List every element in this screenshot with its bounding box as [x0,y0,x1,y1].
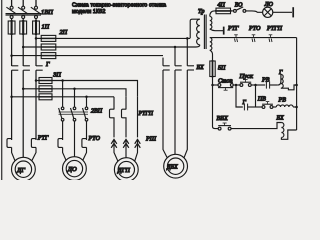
wire DBH right down into motor [184,70,187,158]
coil G [278,74,297,89]
svg-text:ВО: ВО [235,2,243,8]
button PV [262,102,273,109]
wire BH mid down [174,47,176,66]
wire tap L1 to 2P [12,55,42,57]
thermal relay RTGP heater 1 [110,109,115,137]
contact G aux [244,104,255,111]
switch 1VP pole 3 blade [31,7,41,14]
right rail [296,38,298,130]
contactor BH main contact 1 [163,66,170,70]
node tap L3 to fuse block 3P [35,79,38,82]
wire tap L1 to 3P [12,96,39,98]
transformer secondary lower winding [210,38,212,51]
node tap L2 to fuse block 3P [22,88,25,91]
motor DG [12,157,36,181]
fuse 5P [210,60,215,78]
transformer secondary lower top lead to thermal contacts [210,37,213,39]
plug arrows RSh wire 2 [123,139,129,157]
node DO branch on line A [61,79,64,82]
wire DG right into motor [32,147,36,160]
wire DGP phase 3 down [137,97,139,138]
svg-text:1ВП: 1ВП [41,9,53,16]
wire VO to lamp [246,11,263,12]
wire DO branch 2 down to switch [74,89,76,107]
svg-text:ДГ: ДГ [16,167,25,174]
thermal relay RTG heater left [7,139,12,148]
svg-text:4П: 4П [218,1,226,8]
wire line A to transformer riser [56,37,190,39]
svg-text:РТГ: РТГ [227,26,239,32]
switch 1VP mechanical link [6,14,42,15]
wire DO left into motor [63,147,66,160]
svg-text:РТО: РТО [248,26,261,32]
svg-text:Г: Г [278,70,283,76]
switch VO [234,7,246,12]
transformer primary bottom connection [194,45,200,47]
svg-text:ДБХ: ДБХ [166,165,178,171]
svg-text:БХ: БХ [196,65,205,71]
contactor G main contact pole 2 [23,66,30,70]
wire L1 below contact [11,70,13,140]
switch 1VP pole 1 lower circle [10,16,13,19]
phase L1 top stub [11,0,13,6]
wire DO pole1 below switch [62,121,64,140]
wire DO pole3 below switch [86,121,88,140]
wire to stop button [213,84,219,86]
button VBH [218,123,231,130]
switch 1VP pole 3 upper circle [35,6,38,9]
svg-text:Г: Г [242,100,247,106]
wire 3P line A to DGP corner [52,81,138,97]
wire DGP phase 2 down [125,97,127,110]
svg-text:БХ: БХ [276,115,285,121]
svg-text:РТГП: РТГП [266,26,283,32]
svg-text:РТО: РТО [88,136,101,142]
plug arrows RSh wire 3 [135,139,141,161]
terminal bar lamp return [223,27,225,35]
motor DGP [114,158,138,182]
button Pusk [240,79,251,86]
thermal contact RTO [252,35,256,42]
fuse 1P pole 2 [20,20,27,35]
fuse 4P [215,8,232,14]
wire 3P line C to DGP corner [52,96,114,98]
switch 1VP pole 2 lower circle [22,16,25,19]
svg-text:5П: 5П [218,66,226,72]
node after stop [235,84,238,87]
wire riser after start down [255,85,257,107]
switch 1VP pole 2 upper circle [22,6,25,9]
svg-text:Пуск: Пуск [239,73,254,80]
contactor BH main contact 3 [187,66,194,70]
contact RV [266,81,277,88]
svg-text:ПВ: ПВ [257,96,266,102]
wire L2 below contact [22,70,24,157]
switch 1VP pole 1 blade [6,7,16,14]
contactor G main contact pole 1 [12,66,19,70]
fuse 3P pole A [39,78,52,84]
switch 1VP pole 1 upper circle [10,6,13,9]
svg-text:3П: 3П [52,72,61,79]
node line A riser/BH [186,37,189,40]
wire 4P to VO [231,10,234,12]
svg-text:РШ: РШ [145,136,157,142]
transformer secondary tap lead [210,29,223,31]
wire DBH left down into motor [163,70,167,158]
wire L2 switch to fuse [22,19,24,22]
transformer core [204,15,206,50]
node after start [254,84,257,87]
phase L2 top stub [22,0,24,6]
transformer secondary lower bottom lead down [210,50,213,61]
switch 2VP pole 2 [71,107,76,121]
wire left rail down to VBH [213,85,219,129]
svg-text:РВ: РВ [278,97,287,103]
svg-text:ДГП: ДГП [117,167,131,174]
thermal relay RTGP heater 2 [122,109,127,137]
coil BH [281,123,296,140]
thermal relay RTO heater left [58,139,63,148]
wire tap L3 to 2P [36,37,41,39]
transformer primary winding [197,19,200,45]
svg-text:модели 1К62: модели 1К62 [72,9,105,15]
node DO branch on line C [85,96,88,99]
wire BH right down [186,38,188,65]
svg-text:РТГ: РТГ [37,136,49,142]
switch 1VP pole 3 lower circle [35,16,38,19]
svg-text:1П: 1П [42,23,50,30]
wire DBH mid down into motor [174,70,176,154]
svg-text:ЛО: ЛО [264,2,274,8]
wire VBH to BH coil [231,123,281,129]
left frame border [1,0,3,180]
svg-text:ДО: ДО [67,166,77,173]
node tap L1 to fuse block 3P [10,96,13,99]
wire L2 vertical fuse to contact [22,34,24,66]
wire DO pole2 below switch to motor [74,121,76,157]
fuse 1P pole 1 [8,20,15,35]
wire line C [56,55,163,57]
svg-text:ВБХ: ВБХ [217,115,228,122]
wire line C corner down [162,58,164,66]
node tap L2 to fuse block 2P [22,46,25,49]
phase L3 top stub [35,0,37,6]
node G coil to rail [295,84,298,87]
wire DG left into motor [12,147,15,160]
fuse 2P pole A [41,35,56,41]
wire DO branch 1 down to switch [62,81,64,108]
wire DGP phase 1 down [113,97,115,110]
thermal contact RTG [234,35,238,42]
node tap L1 to fuse block 2P [10,54,13,57]
motor DBH [164,154,188,178]
svg-text:Тр: Тр [198,8,204,15]
wire tap L2 to 2P [23,46,41,48]
svg-text:2П: 2П [60,29,68,36]
wire 3P line B to DGP corner [52,89,126,97]
wire G aux to PV [256,106,263,108]
node control left [211,84,214,87]
switch 1VP pole 2 blade [18,7,28,14]
transformer secondary upper top lead to fuse 4P [210,11,216,17]
wire 5P to stop row [212,77,214,86]
svg-text:Стоп: Стоп [218,79,233,85]
fuse 2P pole B [41,44,56,50]
svg-text:РТГП: РТГП [138,111,154,117]
wire DO branch 3 down to switch [86,97,88,107]
wire lamp to terminal [273,11,292,13]
svg-text:РВ: РВ [261,78,270,84]
button Stop [218,84,233,91]
fuse 3P pole C [39,94,52,100]
thermal relay RTG heater right [31,139,36,148]
contactor BH main contact 2 [175,66,182,70]
wire tap L3 to 3P [36,80,39,82]
transformer secondary upper winding [210,16,212,29]
svg-text:Схема токарно-винторезного ст: Схема токарно-винторезного станка [72,2,166,8]
motor DO [63,157,87,181]
wire line B to transformer primary bottom [56,46,194,48]
wire riser after stop down [236,85,243,107]
svg-text:Г: Г [45,61,50,68]
thermal relay RTO heater right [82,139,87,148]
wire secondary to thermal contacts [213,37,297,39]
svg-text:2ВП: 2ВП [91,109,103,115]
fuse 3P pole B [39,86,52,92]
switch 2VP pole 1 [59,107,64,121]
wire L1 vertical fuse to contact [11,34,13,66]
wire start to RV contact [251,84,265,86]
wire DO right into motor [83,147,87,160]
fuse 2P pole C [41,53,56,59]
wire tap L2 to 3P [23,88,39,90]
transformer primary riser [190,19,200,38]
wire stop to start [233,84,240,86]
wire L3 below contact [35,70,37,140]
paper background [0,0,320,180]
terminal bar lamp out [292,7,294,17]
thermal contact RTGP [269,35,273,42]
fuse 1P pole 3 [33,20,40,35]
plug arrows RSh wire 1 [111,139,118,161]
wire L1 switch to fuse [11,19,13,22]
wire L3 switch to fuse [35,19,37,22]
node tap L3 to fuse block 2P [35,37,38,40]
wire L3 vertical fuse to contact [35,34,37,66]
lamp LO [263,7,273,17]
coil RV [273,105,297,107]
node DO branch on line B [73,88,76,91]
switch 2VP mechanical link [59,112,89,114]
node line B to BH [174,46,177,49]
node RV coil to rail [295,106,298,109]
switch 2VP pole 3 [83,107,88,121]
contactor G main contact pole 3 [36,66,43,70]
